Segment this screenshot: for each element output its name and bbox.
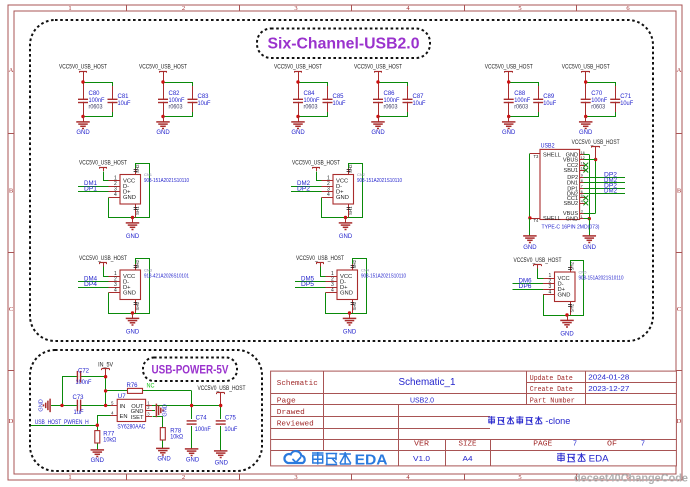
svg-text:GND: GND — [336, 195, 349, 201]
svg-text:GND: GND — [340, 291, 353, 297]
svg-text:Create Date: Create Date — [530, 386, 573, 394]
svg-text:GND: GND — [579, 130, 593, 136]
svg-text:VCC5V0_USB_HOST: VCC5V0_USB_HOST — [79, 161, 127, 167]
svg-text:100nF: 100nF — [384, 98, 400, 104]
svg-text:7: 7 — [573, 441, 577, 448]
svg-text:C70: C70 — [591, 91, 603, 97]
svg-text:10uF: 10uF — [413, 101, 426, 107]
svg-text:ISET: ISET — [131, 415, 144, 421]
svg-text:GND: GND — [76, 130, 90, 136]
svg-text:GND: GND — [343, 330, 357, 336]
svg-text:C83: C83 — [198, 94, 210, 100]
svg-text:GND: GND — [91, 458, 105, 464]
svg-text:r0603: r0603 — [89, 105, 104, 111]
svg-text:SIZE: SIZE — [459, 441, 477, 449]
svg-text:GND: GND — [371, 130, 385, 136]
svg-text:V1.0: V1.0 — [413, 454, 430, 463]
svg-text:C80: C80 — [89, 91, 101, 97]
svg-text:10uF: 10uF — [118, 101, 131, 107]
svg-text:GND: GND — [502, 130, 516, 136]
svg-text:DP2: DP2 — [297, 187, 311, 193]
svg-text:U7: U7 — [118, 394, 127, 400]
svg-text:VCC5V0_USB_HOST: VCC5V0_USB_HOST — [274, 65, 322, 71]
svg-text:3: 3 — [581, 210, 583, 214]
svg-text:C81: C81 — [118, 94, 130, 100]
svg-text:100nF: 100nF — [514, 98, 530, 104]
svg-text:GND: GND — [157, 457, 171, 463]
svg-text:5: 5 — [518, 5, 521, 12]
svg-text:IN: IN — [120, 404, 126, 410]
svg-text:908-151A2021S10110: 908-151A2021S10110 — [361, 274, 406, 280]
svg-text:GND: GND — [560, 332, 574, 338]
svg-text:deceet40ChangeCode: deceet40ChangeCode — [574, 473, 688, 485]
svg-text:C85: C85 — [333, 94, 345, 100]
svg-text:10uF: 10uF — [198, 101, 211, 107]
svg-text:1: 1 — [68, 5, 71, 12]
svg-text:11: 11 — [581, 161, 585, 165]
svg-text:EDA: EDA — [589, 454, 610, 465]
svg-text:TYPE-C 16PIN 2MD(073): TYPE-C 16PIN 2MD(073) — [542, 225, 600, 231]
svg-text:DP5: DP5 — [301, 282, 315, 288]
svg-text:GND: GND — [156, 130, 170, 136]
svg-text:r0603: r0603 — [514, 105, 529, 111]
svg-text:9: 9 — [581, 174, 583, 178]
svg-text:Drawed: Drawed — [277, 409, 305, 417]
svg-text:2023-12-27: 2023-12-27 — [588, 386, 629, 393]
svg-text:CN3: CN3 — [144, 268, 153, 273]
svg-text:10kΩ: 10kΩ — [170, 434, 183, 440]
svg-text:r0603: r0603 — [169, 105, 184, 111]
svg-text:A4: A4 — [463, 454, 473, 463]
svg-text:D: D — [9, 418, 14, 425]
svg-text:2: 2 — [182, 474, 185, 481]
svg-text:GND: GND — [291, 130, 305, 136]
svg-text:VCC5V0_USB_HOST: VCC5V0_USB_HOST — [485, 65, 533, 71]
svg-text:DP6: DP6 — [519, 284, 533, 290]
svg-text:C88: C88 — [514, 91, 526, 97]
svg-text:SHELL: SHELL — [543, 153, 561, 159]
svg-text:4: 4 — [114, 192, 117, 198]
svg-text:DP1: DP1 — [84, 187, 98, 193]
svg-text:GND: GND — [123, 291, 136, 297]
svg-text:USB2.0: USB2.0 — [410, 397, 434, 404]
svg-text:DM2: DM2 — [604, 189, 618, 195]
svg-text:Page: Page — [277, 398, 296, 406]
svg-text:4: 4 — [331, 288, 334, 294]
svg-text:GND: GND — [123, 195, 136, 201]
svg-text:2024-01-28: 2024-01-28 — [588, 375, 629, 382]
svg-text:C84: C84 — [304, 91, 316, 97]
svg-text:7: 7 — [581, 185, 583, 189]
svg-text:B: B — [677, 188, 682, 195]
svg-text:NC: NC — [147, 384, 156, 390]
svg-text:EN: EN — [120, 414, 128, 420]
svg-text:4: 4 — [114, 288, 117, 294]
svg-text:C74: C74 — [196, 415, 208, 421]
svg-text:B: B — [9, 188, 14, 195]
svg-text:10kΩ: 10kΩ — [103, 437, 116, 443]
svg-text:Schematic: Schematic — [277, 380, 318, 388]
svg-text:908-151A2021S10110: 908-151A2021S10110 — [579, 276, 624, 282]
svg-text:C71: C71 — [620, 94, 632, 100]
svg-text:C82: C82 — [169, 91, 181, 97]
svg-text:-clone: -clone — [545, 416, 570, 426]
svg-text:A: A — [9, 67, 14, 74]
svg-text:10uF: 10uF — [543, 101, 556, 107]
svg-text:2: 2 — [182, 5, 185, 12]
svg-text:T4: T4 — [534, 218, 540, 223]
svg-text:C: C — [9, 306, 13, 313]
svg-text:PAGE: PAGE — [533, 441, 552, 449]
svg-text:SBU1: SBU1 — [563, 168, 578, 174]
svg-text:GND: GND — [126, 234, 140, 240]
svg-text:R76: R76 — [127, 383, 139, 389]
svg-text:C86: C86 — [384, 91, 396, 97]
svg-text:T3: T3 — [534, 154, 540, 159]
svg-text:5: 5 — [518, 474, 521, 481]
svg-text:16: 16 — [581, 151, 585, 155]
svg-text:Update Date: Update Date — [530, 375, 573, 383]
svg-text:8: 8 — [581, 179, 583, 183]
svg-text:GND: GND — [339, 234, 353, 240]
svg-text:VCC5V0_USB_HOST: VCC5V0_USB_HOST — [59, 65, 107, 71]
svg-text:OF: OF — [607, 441, 617, 449]
svg-text:908-151A2021S10110: 908-151A2021S10110 — [357, 178, 402, 184]
svg-text:r0603: r0603 — [591, 105, 606, 111]
svg-text:USB-POWER-5V: USB-POWER-5V — [152, 363, 229, 377]
svg-text:Reviewed: Reviewed — [277, 421, 314, 429]
svg-text:C: C — [677, 306, 681, 313]
svg-text:10uF: 10uF — [224, 427, 237, 433]
svg-text:VER: VER — [414, 441, 430, 449]
svg-text:VCC5V0_USB_HOST: VCC5V0_USB_HOST — [562, 65, 610, 71]
svg-text:5: 5 — [581, 194, 583, 198]
svg-text:VCC5V0_USB_HOST: VCC5V0_USB_HOST — [514, 258, 562, 264]
svg-text:GND: GND — [215, 461, 229, 467]
svg-text:DP4: DP4 — [84, 282, 98, 288]
svg-text:C72: C72 — [78, 368, 90, 374]
svg-text:VCC5V0_USB_HOST: VCC5V0_USB_HOST — [292, 161, 340, 167]
svg-text:100nF: 100nF — [304, 98, 320, 104]
svg-text:VCC5V0_USB_HOST: VCC5V0_USB_HOST — [572, 140, 620, 146]
svg-text:1: 1 — [581, 215, 583, 219]
svg-text:100nF: 100nF — [591, 98, 607, 104]
svg-text:GND: GND — [186, 458, 200, 464]
svg-text:3: 3 — [294, 474, 297, 481]
svg-text:C73: C73 — [73, 395, 85, 401]
svg-text:GND: GND — [566, 217, 578, 223]
svg-text:GND: GND — [583, 245, 597, 251]
svg-text:1: 1 — [68, 474, 71, 481]
svg-text:EDA: EDA — [355, 452, 388, 469]
svg-text:USB2: USB2 — [541, 144, 556, 150]
svg-text:VCC5V0_USB_HOST: VCC5V0_USB_HOST — [354, 65, 402, 71]
svg-text:4: 4 — [549, 290, 552, 296]
svg-text:USB_HOST_PWREN_H: USB_HOST_PWREN_H — [35, 420, 89, 426]
svg-text:CN5: CN5 — [579, 270, 588, 275]
svg-text:D: D — [677, 418, 682, 425]
svg-text:Part Number: Part Number — [530, 397, 575, 405]
svg-text:VCC5V0_USB_HOST: VCC5V0_USB_HOST — [139, 65, 187, 71]
svg-text:C75: C75 — [225, 415, 237, 421]
svg-text:SBU2: SBU2 — [563, 201, 578, 207]
svg-text:12: 12 — [581, 156, 585, 160]
svg-text:r0603: r0603 — [304, 105, 319, 111]
svg-text:10uF: 10uF — [620, 101, 633, 107]
svg-text:r0603: r0603 — [384, 105, 399, 111]
svg-text:10: 10 — [581, 167, 585, 171]
svg-text:GND: GND — [558, 293, 571, 299]
svg-text:GND: GND — [39, 399, 45, 411]
svg-text:100nF: 100nF — [76, 380, 92, 386]
svg-text:VCC5V0_USB_HOST: VCC5V0_USB_HOST — [296, 256, 344, 262]
svg-text:Schematic_1: Schematic_1 — [399, 376, 456, 388]
svg-text:GND: GND — [163, 404, 169, 416]
svg-text:4: 4 — [581, 199, 583, 203]
svg-text:C87: C87 — [413, 94, 425, 100]
svg-text:GND: GND — [126, 330, 140, 336]
svg-text:1uF: 1uF — [74, 410, 84, 416]
svg-text:VCC5V0_USB_HOST: VCC5V0_USB_HOST — [198, 386, 246, 392]
svg-text:4: 4 — [327, 192, 330, 198]
svg-text:VCC5V0_USB_HOST: VCC5V0_USB_HOST — [79, 256, 127, 262]
svg-text:10uF: 10uF — [333, 101, 346, 107]
svg-text:3: 3 — [294, 5, 297, 12]
svg-text:C89: C89 — [543, 94, 555, 100]
svg-text:100nF: 100nF — [89, 98, 105, 104]
svg-text:CN1: CN1 — [144, 172, 153, 177]
svg-text:Six-Channel-USB2.0: Six-Channel-USB2.0 — [268, 36, 420, 53]
svg-text:908-151A2021S10110: 908-151A2021S10110 — [144, 178, 189, 184]
svg-text:918-421A2026S10101: 918-421A2026S10101 — [144, 274, 189, 280]
svg-text:SHELL: SHELL — [543, 216, 561, 222]
svg-text:CN4: CN4 — [361, 268, 370, 273]
svg-text:IN_5V: IN_5V — [98, 362, 113, 368]
svg-text:CN2: CN2 — [357, 172, 366, 177]
svg-text:100nF: 100nF — [195, 427, 211, 433]
svg-text:A: A — [677, 67, 682, 74]
svg-text:SY6280AAC: SY6280AAC — [117, 425, 146, 431]
svg-text:GND: GND — [523, 245, 537, 251]
svg-text:7: 7 — [641, 441, 645, 448]
svg-text:100nF: 100nF — [169, 98, 185, 104]
